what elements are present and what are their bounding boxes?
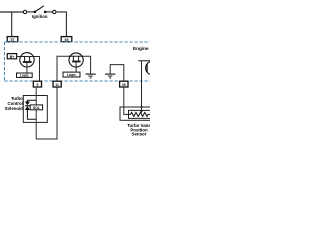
node junction dot <box>141 106 143 108</box>
wire switch to pin 69 <box>56 12 66 37</box>
wire B+ to transistor Q1 and to pin 5 <box>17 57 40 83</box>
label Turbo Control Solenoid <box>5 96 24 111</box>
label Turbo Vane Position Sensor <box>127 123 151 136</box>
wire battery feed <box>0 11 23 13</box>
wire sensor ground staple <box>110 65 124 82</box>
turbo control solenoid box <box>23 96 47 123</box>
ground G1 <box>86 74 96 78</box>
logic box 1 <box>17 73 33 78</box>
wire Q2 to ground <box>84 56 91 73</box>
svg-text:B+: B+ <box>10 55 15 59</box>
wire solenoid return <box>36 88 57 140</box>
SOL coil box <box>30 105 42 110</box>
svg-text:SOL: SOL <box>33 106 40 110</box>
svg-text:25: 25 <box>122 83 126 87</box>
svg-text:Sensor: Sensor <box>132 132 147 137</box>
resistor element box <box>129 110 153 118</box>
wire Q1 base to logic <box>26 63 28 73</box>
diode D1 <box>25 102 30 111</box>
wire drop to pin 57 <box>11 12 13 37</box>
turbo vane position sensor box <box>120 107 152 120</box>
svg-text:Engine Control Module: Engine Control Module <box>133 46 150 51</box>
wiper arrow <box>140 110 143 113</box>
transistor Q2 <box>69 53 84 67</box>
wire pin 5 to solenoid <box>35 87 37 140</box>
wire pin 25 to sensor <box>124 88 129 115</box>
pin box 5 <box>33 81 41 87</box>
snubber diode loop <box>27 100 36 101</box>
transistor Q3 <box>138 61 159 75</box>
pin box 69 <box>61 37 72 43</box>
pin box 11 <box>53 81 61 87</box>
svg-text:Logic: Logic <box>20 74 29 78</box>
node B+ box <box>7 54 16 59</box>
svg-text:Logic: Logic <box>67 73 76 77</box>
wire pin 11 to transistor Q2 <box>57 56 70 81</box>
resistor R1 zigzag <box>129 112 151 116</box>
transistor Q1 <box>20 53 34 67</box>
svg-text:Solenoid: Solenoid <box>5 106 24 111</box>
switch SW1 ignition <box>23 6 56 14</box>
svg-text:11: 11 <box>55 83 59 87</box>
ECM dashed boundary <box>5 42 151 81</box>
svg-text:5: 5 <box>36 83 38 87</box>
pin box 57 <box>7 37 18 43</box>
logic box 2 <box>63 72 80 77</box>
svg-text:Ignition: Ignition <box>32 14 48 19</box>
pin box 25 <box>120 81 128 87</box>
wire Q3 to sensor wiper <box>141 61 143 111</box>
ground G2 <box>105 74 115 78</box>
wire Q2 base to logic <box>75 62 77 72</box>
